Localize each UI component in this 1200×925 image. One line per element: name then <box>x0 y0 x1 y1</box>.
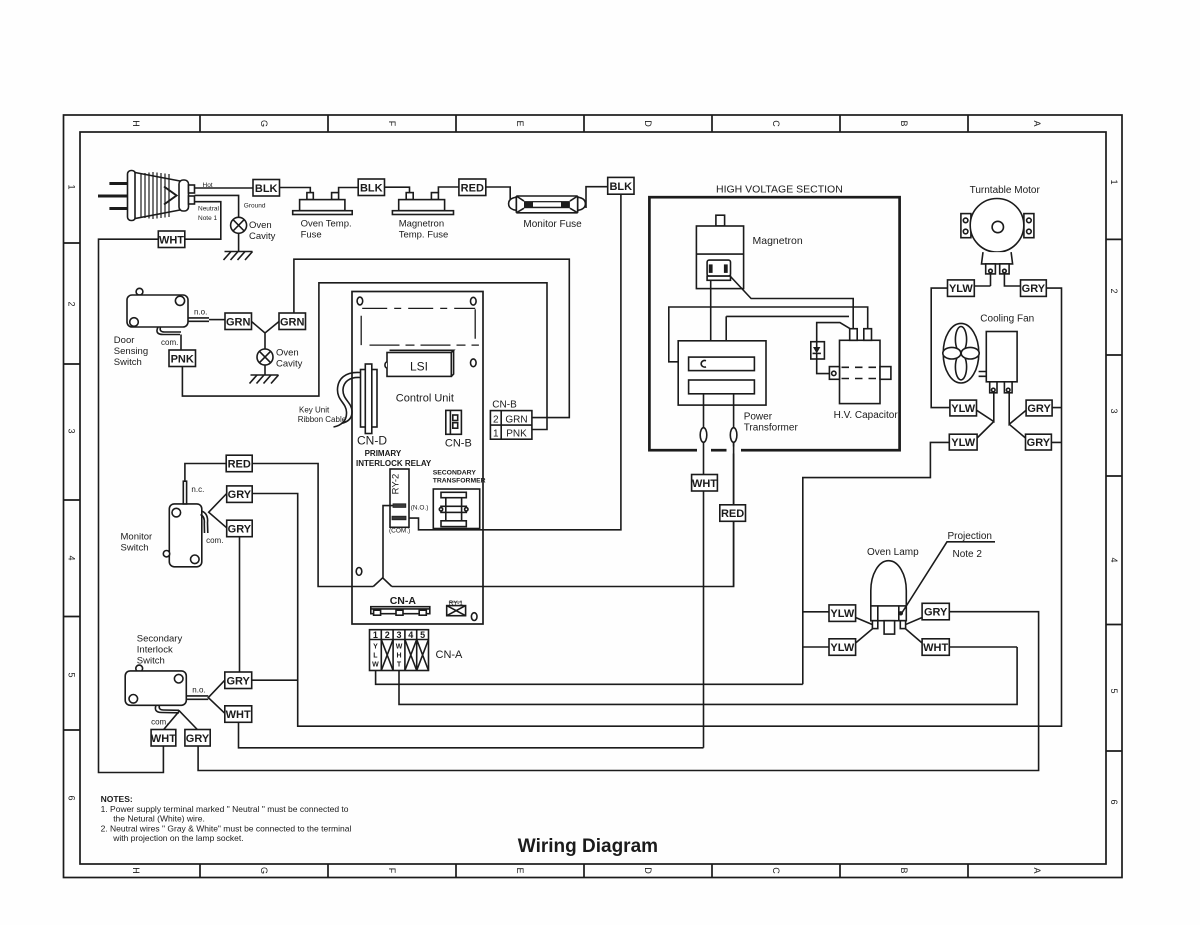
svg-text:H: H <box>131 867 141 874</box>
svg-text:GRY: GRY <box>228 489 252 501</box>
relay RY-1 <box>447 600 466 616</box>
svg-text:Sensing: Sensing <box>114 346 148 357</box>
wire GRN2 to CN-B pin2 <box>294 259 569 417</box>
mounting hole <box>471 297 477 305</box>
svg-text:Switch: Switch <box>114 357 142 368</box>
wire GRY3 to monitor GRY rail <box>252 679 298 681</box>
svg-text:BLK: BLK <box>360 182 383 194</box>
insulator bushing <box>700 428 707 443</box>
svg-text:CN-B: CN-B <box>445 438 472 450</box>
svg-text:Interlock: Interlock <box>137 645 173 656</box>
wire n.o. to GRN <box>209 319 225 321</box>
wire plug neutral to WHT <box>185 202 221 240</box>
svg-text:SECONDARY: SECONDARY <box>433 470 477 477</box>
relay RY-2 <box>390 469 409 527</box>
net label YLW (lamp upper) <box>829 605 856 622</box>
svg-text:Monitor Fuse: Monitor Fuse <box>523 219 582 230</box>
svg-text:2. Neutral wires " Gray & Whi: 2. Neutral wires " Gray & White" must be… <box>101 824 352 834</box>
svg-text:Oven: Oven <box>276 348 299 359</box>
svg-text:GRY: GRY <box>1022 283 1046 295</box>
svg-text:Magnetron: Magnetron <box>399 219 444 230</box>
net label GRY 4 <box>185 730 210 747</box>
svg-text:B: B <box>899 867 909 873</box>
mounting hole <box>471 613 477 621</box>
wire monitor fuse to BLK3 <box>586 187 608 208</box>
magnetron temp fuse F2 <box>392 193 453 215</box>
wire transformer to RED3 down to rail <box>733 394 735 587</box>
svg-text:2: 2 <box>385 630 390 640</box>
wire BLK to oven temp fuse <box>280 188 311 193</box>
svg-text:G: G <box>259 120 269 127</box>
wire GRY4 to oven lamp GRY rail <box>198 612 1039 771</box>
svg-text:com.: com. <box>161 338 178 347</box>
com hook lead <box>157 327 181 335</box>
svg-text:CN-A: CN-A <box>436 649 464 661</box>
wire GRN Y-junction to cavity 2 <box>252 322 280 350</box>
control unit board U1 <box>352 292 483 625</box>
svg-text:YLW: YLW <box>830 608 854 620</box>
svg-text:Oven Temp.: Oven Temp. <box>301 219 352 230</box>
connector CN-B on board <box>446 410 462 434</box>
high voltage section box <box>649 197 899 450</box>
svg-text:GRN: GRN <box>280 316 305 328</box>
svg-text:Transformer: Transformer <box>744 423 799 434</box>
svg-text:D: D <box>643 120 653 127</box>
svg-text:YLW: YLW <box>949 283 973 295</box>
diode D1 <box>811 342 825 359</box>
net label GRY (fan upper) <box>1026 400 1052 416</box>
svg-text:Key Unit: Key Unit <box>299 406 330 415</box>
wire hot plug to BLK <box>195 187 254 189</box>
wire RY-2 NO to rail <box>383 506 393 578</box>
svg-text:1: 1 <box>493 429 499 440</box>
svg-text:Fuse: Fuse <box>301 230 322 241</box>
CONTENT <box>98 171 1062 858</box>
wire GRY net rail to cooling fan GRY <box>252 288 1061 726</box>
svg-text:PRIMARY: PRIMARY <box>365 449 402 458</box>
svg-text:Ground: Ground <box>244 203 266 210</box>
door sensing switch S1 <box>127 288 209 327</box>
svg-text:HIGH VOLTAGE SECTION: HIGH VOLTAGE SECTION <box>716 184 843 196</box>
turntable motor M1 <box>961 199 1034 274</box>
svg-text:GRN: GRN <box>505 414 527 425</box>
svg-text:RED: RED <box>461 182 484 194</box>
svg-text:4: 4 <box>1109 557 1119 562</box>
wire fuse1 to BLK2 <box>339 188 359 193</box>
wire fan right terminal fanout to GRY boxes <box>1009 393 1026 438</box>
svg-text:2: 2 <box>1109 288 1119 293</box>
connector CN-A on board <box>371 607 430 616</box>
net label WHT 2 <box>225 706 252 723</box>
svg-text:Turntable Motor: Turntable Motor <box>970 185 1041 196</box>
svg-text:GRY: GRY <box>228 524 252 536</box>
svg-text:G: G <box>259 867 269 874</box>
svg-text:the Netural (White) wire.: the Netural (White) wire. <box>113 814 205 824</box>
svg-text:F: F <box>387 868 397 874</box>
svg-text:Cavity: Cavity <box>249 231 276 242</box>
svg-text:6: 6 <box>1109 799 1119 804</box>
top band ticks <box>200 115 968 132</box>
svg-text:B: B <box>899 120 909 126</box>
svg-text:(COM.): (COM.) <box>389 528 410 535</box>
svg-text:C: C <box>771 120 781 127</box>
svg-text:YLW: YLW <box>830 642 854 654</box>
svg-text:C: C <box>771 867 781 874</box>
svg-text:T: T <box>397 662 402 669</box>
svg-text:n.o.: n.o. <box>192 686 205 695</box>
svg-text:BLK: BLK <box>609 181 632 193</box>
wire CN-A pin1 to YLW rail <box>376 671 803 685</box>
key unit ribbon cable <box>334 372 361 427</box>
wire cavity to ground <box>238 233 240 251</box>
svg-text:Neutral: Neutral <box>198 206 220 213</box>
svg-text:com.: com. <box>206 536 223 545</box>
net label RED 3 <box>720 505 746 522</box>
cooling fan B1 <box>943 323 1017 392</box>
wire fan YLW lower jog to oven lamp YLW <box>803 442 950 684</box>
net label GRY (fan lower) <box>1026 434 1052 450</box>
wire diode to capacitor side terminal <box>817 359 830 374</box>
svg-text:com.: com. <box>151 718 168 727</box>
svg-text:4: 4 <box>408 630 413 640</box>
monitor switch S2 <box>163 481 202 567</box>
svg-text:1. Power supply terminal mark: 1. Power supply terminal marked " Neutra… <box>101 804 349 814</box>
wire transformer HV to capacitor terminal 2 <box>669 307 868 362</box>
wire n.o. fanout to GRY3/WHT2 <box>208 680 225 713</box>
wire left rail WHT to WHT secondary interlock <box>99 239 164 772</box>
wire fan left terminal fanout to YLW boxes <box>977 393 994 438</box>
net label GRY (lamp) <box>922 603 949 620</box>
net label GRY 2 <box>227 520 253 537</box>
svg-text:GRY: GRY <box>1027 403 1051 415</box>
svg-text:3: 3 <box>67 428 77 433</box>
border outer frame <box>64 115 1123 878</box>
svg-text:with projection on the lamp so: with projection on the lamp socket. <box>112 833 243 843</box>
net label GRN 2 <box>279 313 306 330</box>
wire lamp WHT to rail <box>949 646 1017 648</box>
net label GRN 1 <box>225 313 252 330</box>
bottom band ticks <box>200 864 968 878</box>
magnetron V1 <box>696 215 743 288</box>
transformer T1 power <box>678 341 766 405</box>
junction hop RY-2 to rail <box>373 578 392 587</box>
svg-text:Oven Lamp: Oven Lamp <box>867 547 919 558</box>
ground symbol 2 <box>250 375 279 384</box>
net label BLK (hot) <box>253 180 280 197</box>
com hook lead monitor <box>201 511 208 533</box>
svg-text:CN-A: CN-A <box>390 595 417 607</box>
display window (dashed) <box>361 308 479 345</box>
wire fuse2 to RED <box>438 187 459 193</box>
net label WHT 4 <box>692 475 718 492</box>
wire com fanout to GRY boxes <box>209 494 227 528</box>
svg-text:Control Unit: Control Unit <box>396 393 454 405</box>
svg-text:1: 1 <box>67 184 77 189</box>
oven temp fuse F1 <box>293 193 353 215</box>
svg-text:Projection: Projection <box>948 531 992 542</box>
svg-text:H.V. Capacitor: H.V. Capacitor <box>834 410 899 421</box>
wire com fanout to WHT3/GRY4 <box>164 711 198 730</box>
net label YLW (lamp lower) <box>829 639 856 656</box>
net label YLW (fan upper) <box>950 400 977 416</box>
svg-text:LSI: LSI <box>410 360 428 374</box>
svg-text:RED: RED <box>228 459 251 471</box>
svg-text:Power: Power <box>744 412 773 423</box>
IC LSI <box>385 350 454 376</box>
svg-text:n.c.: n.c. <box>191 485 204 494</box>
svg-text:Switch: Switch <box>121 543 149 554</box>
wire filament winding tap with arrow <box>726 316 849 367</box>
svg-text:WHT: WHT <box>923 642 948 654</box>
svg-text:RED: RED <box>721 508 744 520</box>
wire PNK to CN-B pin1 <box>182 283 547 430</box>
ground symbol 1 <box>224 252 253 261</box>
monitor fuse F3 <box>509 196 586 213</box>
svg-text:Ribbon Cable: Ribbon Cable <box>298 415 347 424</box>
wire RED2 right and rail to RED3 <box>252 442 733 587</box>
wire magnetron filament to transformer <box>710 280 712 357</box>
svg-text:A: A <box>1032 120 1042 126</box>
svg-text:Cavity: Cavity <box>276 359 303 370</box>
wire diode to capacitor <box>817 323 850 342</box>
net label WHT 3 <box>151 730 176 747</box>
connector CN-A pin block <box>370 630 429 671</box>
net label GRY (turntable) <box>1021 280 1047 297</box>
projection leader line <box>902 542 996 614</box>
mounting hole <box>357 297 363 305</box>
wire RED to monitor fuse <box>486 187 510 199</box>
net label YLW (turntable) <box>948 280 975 297</box>
svg-text:Secondary: Secondary <box>137 634 183 645</box>
svg-text:PNK: PNK <box>506 429 527 440</box>
oven cavity lamp E2 <box>257 349 273 365</box>
left band ticks <box>64 243 81 730</box>
svg-text:4: 4 <box>67 555 77 560</box>
wire transformer to WHT4 down to WHT rail <box>703 394 705 748</box>
svg-text:H: H <box>131 120 141 127</box>
svg-text:3: 3 <box>1109 408 1119 413</box>
secondary interlock switch S3 <box>125 665 208 705</box>
connector CN-B table <box>490 411 532 440</box>
wire turntable YLW to fan YLW <box>931 288 950 408</box>
svg-text:E: E <box>515 867 525 873</box>
svg-text:Switch: Switch <box>137 656 165 667</box>
net label BLK 2 <box>358 179 384 196</box>
power plug P1 <box>98 171 195 221</box>
svg-text:2: 2 <box>493 414 499 425</box>
capacitor C1 H.V. <box>829 329 891 404</box>
oven lamp E3 <box>871 561 907 634</box>
svg-text:CN-B: CN-B <box>492 399 517 410</box>
svg-text:5: 5 <box>67 672 77 677</box>
net label GRY 1 <box>227 486 253 503</box>
net label GRY 3 <box>225 672 252 689</box>
svg-text:5: 5 <box>1109 688 1119 693</box>
svg-text:1: 1 <box>373 630 378 640</box>
right band ticks <box>1106 239 1122 751</box>
svg-text:Magnetron: Magnetron <box>753 235 803 247</box>
wire motor to YLW <box>974 274 990 286</box>
wire GRY2 down to GRY3 <box>239 537 241 672</box>
lamp terminal diagonals <box>856 618 923 644</box>
net label WHT (lamp) <box>922 639 949 656</box>
svg-text:WHT: WHT <box>226 709 251 721</box>
svg-text:D: D <box>643 867 653 874</box>
svg-text:INTERLOCK RELAY: INTERLOCK RELAY <box>356 459 432 468</box>
wire motor to GRY <box>1004 274 1020 286</box>
mounting hole <box>471 359 477 367</box>
mounting hole <box>356 568 362 576</box>
net label BLK 3 <box>608 177 634 194</box>
svg-text:H: H <box>396 653 401 660</box>
oven cavity lamp E1 <box>231 217 247 233</box>
svg-text:Cooling Fan: Cooling Fan <box>980 314 1034 325</box>
net label RED 2 <box>226 455 252 472</box>
transformer T2 secondary <box>433 489 479 529</box>
svg-text:WHT: WHT <box>159 234 184 246</box>
wire lamp YLW boxes to vertical <box>803 612 829 647</box>
svg-text:GRY: GRY <box>924 607 948 619</box>
svg-text:Oven: Oven <box>249 220 272 231</box>
svg-text:Y: Y <box>373 644 378 651</box>
svg-text:BLK: BLK <box>255 183 278 195</box>
svg-text:Monitor: Monitor <box>121 532 153 543</box>
svg-text:YLW: YLW <box>951 437 975 449</box>
svg-text:6: 6 <box>67 795 77 800</box>
net label RED (top) <box>459 179 486 196</box>
svg-text:GRY: GRY <box>1027 437 1051 449</box>
svg-text:F: F <box>387 121 397 127</box>
svg-text:GRN: GRN <box>226 316 251 328</box>
svg-text:NOTES:: NOTES: <box>101 794 133 804</box>
svg-text:E: E <box>515 120 525 126</box>
wire com to PNK <box>180 335 182 351</box>
wire RED2 to n.c. plunger <box>185 464 226 482</box>
svg-text:WHT: WHT <box>692 478 717 490</box>
wire CN-A pin3 to WHT rail <box>399 647 1017 704</box>
notes text <box>101 794 352 843</box>
svg-text:CN-D: CN-D <box>357 434 387 448</box>
svg-text:Temp. Fuse: Temp. Fuse <box>399 230 449 241</box>
net label WHT (neutral) <box>158 231 185 248</box>
svg-text:Note 1: Note 1 <box>198 215 218 222</box>
svg-text:W: W <box>372 662 379 669</box>
svg-text:3: 3 <box>396 630 401 640</box>
svg-text:PNK: PNK <box>171 353 194 365</box>
wire WHT2 to WHT4 rail <box>239 722 704 748</box>
svg-text:W: W <box>396 644 403 651</box>
connector CN-D <box>361 364 378 434</box>
svg-text:RY-2: RY-2 <box>391 474 402 495</box>
svg-text:GRY: GRY <box>226 675 250 687</box>
svg-text:1: 1 <box>1109 179 1119 184</box>
svg-text:A: A <box>1032 867 1042 873</box>
com hook lead secondary <box>155 705 179 713</box>
svg-text:5: 5 <box>420 630 425 640</box>
svg-text:TRANSFORMER: TRANSFORMER <box>433 478 486 485</box>
wire magnetron to capacitor terminal 1 <box>731 277 854 329</box>
net label PNK <box>169 350 196 367</box>
insulator bushing <box>730 428 737 443</box>
wire cavity2 to ground <box>264 365 266 375</box>
wire BLK2 to magnetron temp fuse <box>385 187 410 192</box>
wire BLK3 down to RY-2 COM <box>406 194 621 530</box>
svg-text:n.o.: n.o. <box>194 308 207 317</box>
svg-text:YLW: YLW <box>951 403 975 415</box>
svg-text:Wiring Diagram: Wiring Diagram <box>518 836 658 857</box>
border inner frame <box>80 132 1106 864</box>
svg-text:Door: Door <box>114 335 135 346</box>
svg-text:WHT: WHT <box>151 733 176 745</box>
svg-text:2: 2 <box>67 301 77 306</box>
svg-text:(N.O.): (N.O.) <box>411 505 429 512</box>
svg-text:GRY: GRY <box>186 733 210 745</box>
svg-text:Note 2: Note 2 <box>953 549 983 560</box>
wire fan GRY boxes to long vertical <box>1051 408 1061 443</box>
wire plug ground to oven cavity <box>195 195 239 217</box>
net label YLW (fan lower) <box>949 434 977 450</box>
svg-text:L: L <box>373 653 378 660</box>
